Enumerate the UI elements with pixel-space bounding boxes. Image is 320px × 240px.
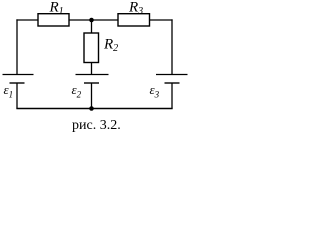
wire e1 to bottom: [16, 83, 18, 109]
resistor R3: [118, 14, 150, 26]
node top junction dot: [89, 18, 94, 23]
battery e2 short plate: [84, 82, 99, 84]
wire e3 to bottom: [171, 83, 173, 109]
wire left vertical: [16, 19, 18, 74]
wire R2 to battery e2: [91, 63, 93, 75]
resistor R1: [38, 14, 69, 26]
battery e3 long plate: [156, 74, 188, 76]
svg-text:рис. 3.2.: рис. 3.2.: [72, 118, 121, 133]
wire e2 to bottom: [91, 83, 93, 109]
resistor R2: [84, 33, 99, 63]
battery e3 short plate: [165, 82, 180, 84]
battery e1 long plate: [3, 74, 34, 76]
wire middle vertical (node to R2): [91, 20, 93, 33]
battery e1 short plate: [10, 82, 25, 84]
wire right vertical: [171, 19, 173, 74]
wire R3 to top-right corner: [150, 19, 173, 21]
wire R1 to R3 (through top node): [69, 19, 118, 21]
wire bottom horizontal: [16, 108, 172, 110]
battery e2 long plate: [76, 74, 109, 76]
wire top-left horizontal (left vertical to R1): [16, 19, 38, 21]
node bottom junction dot: [89, 106, 94, 111]
